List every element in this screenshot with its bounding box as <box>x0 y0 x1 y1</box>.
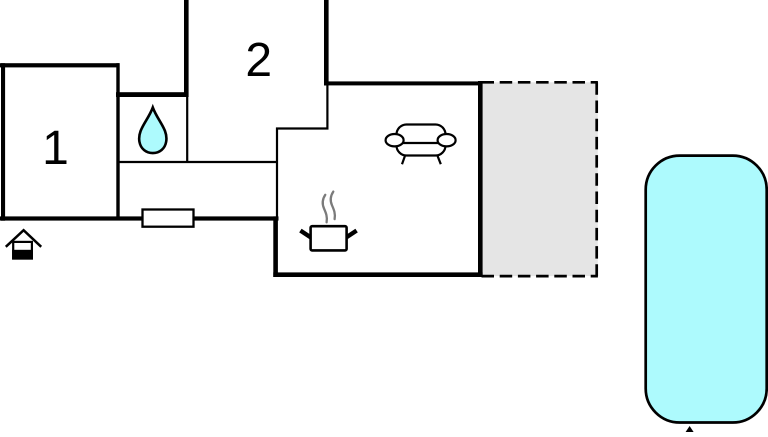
svg-text:1: 1 <box>42 122 69 175</box>
svg-text:2: 2 <box>245 34 272 87</box>
